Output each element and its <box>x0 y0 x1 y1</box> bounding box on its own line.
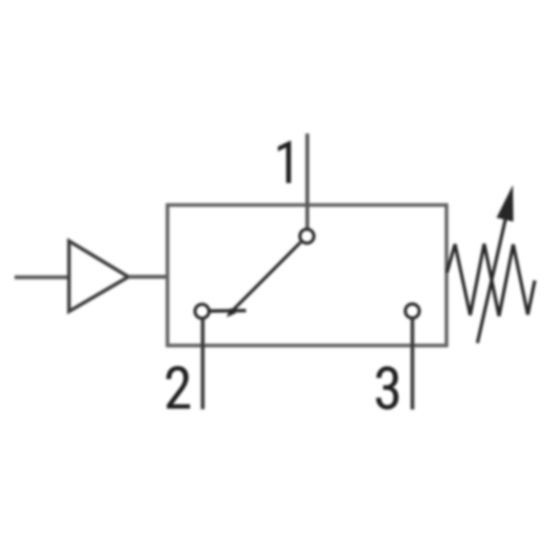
amplifier triangle U1 <box>69 241 128 311</box>
label 2 <box>166 366 190 409</box>
contact circle, terminal 2 <box>195 304 209 318</box>
switch body box <box>168 205 447 346</box>
terminal 1 wire <box>305 134 309 229</box>
label 1 <box>278 141 291 183</box>
terminal 2 wire <box>201 319 205 409</box>
adjustment arrowhead <box>497 185 514 222</box>
contact circle, terminal 3 <box>405 304 419 318</box>
wire: amplifier output to box <box>128 275 167 279</box>
input port wire <box>15 275 70 279</box>
terminal 3 wire <box>410 319 414 410</box>
adjustment spring <box>447 244 535 316</box>
fixed contact line from terminal 2 <box>210 309 246 313</box>
label 3 <box>376 366 398 409</box>
contact circle, terminal 1 <box>300 229 314 243</box>
switch lever arrowhead <box>227 308 236 317</box>
switch lever (movable contact) <box>231 242 301 312</box>
adjustment arrow shaft <box>477 208 508 343</box>
